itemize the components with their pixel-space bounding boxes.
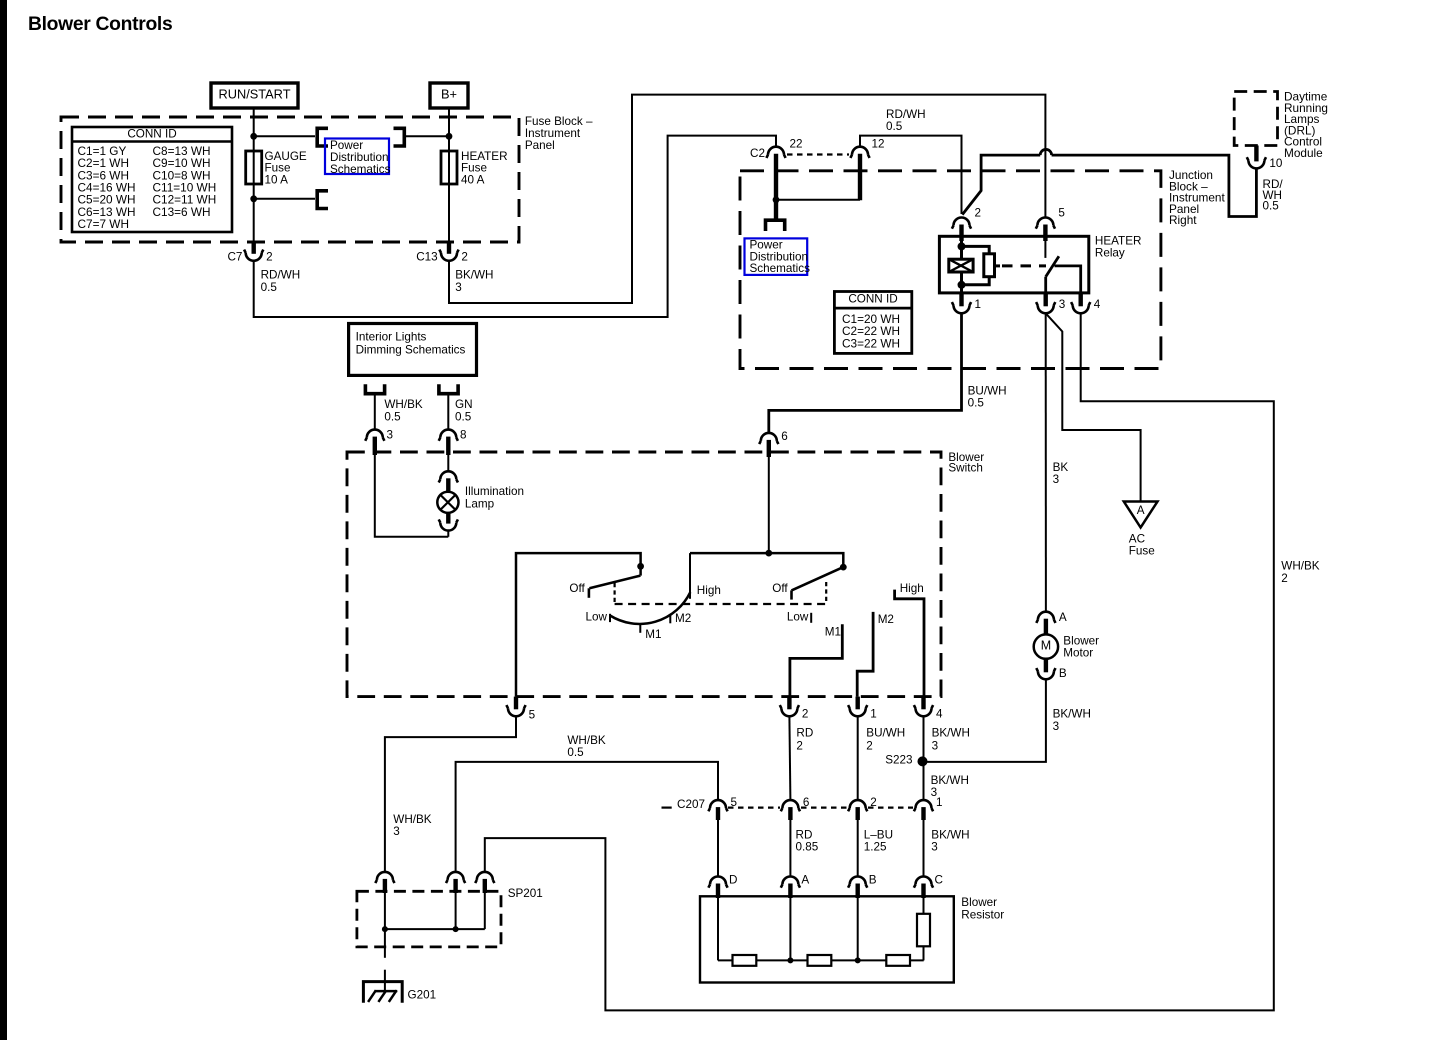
svg-text:0.5: 0.5	[1263, 200, 1280, 213]
svg-text:2: 2	[870, 796, 877, 809]
connector mating dashes C2	[787, 153, 849, 155]
resistor chain wire	[718, 959, 924, 961]
svg-text:Fuse: Fuse	[1129, 545, 1155, 558]
svg-text:3: 3	[1053, 720, 1060, 733]
relay coil junction dot bottom	[958, 281, 966, 289]
svg-text:Motor: Motor	[1063, 647, 1093, 660]
resistor internal wire B	[857, 898, 859, 960]
svg-text:2: 2	[461, 251, 468, 264]
blower resistor pin A connector	[781, 877, 800, 888]
wire C207-5 to resistor D	[717, 819, 719, 877]
svg-text:B+: B+	[441, 86, 457, 101]
svg-text:BK/WH: BK/WH	[931, 774, 969, 787]
relay switch to pin 3	[1044, 277, 1047, 293]
svg-text:A: A	[1059, 611, 1067, 624]
resistor internal wire C	[923, 898, 925, 914]
blower motor	[1034, 634, 1058, 658]
svg-text:SP201: SP201	[508, 887, 543, 900]
svg-text:Interior Lights: Interior Lights	[356, 331, 427, 344]
blower resistor pin C connector	[914, 877, 933, 888]
heater fuse HEATER Fuse 40 A	[441, 151, 457, 184]
connector C7 pin 2	[244, 250, 263, 261]
contact tick M2 (switch 1)	[669, 615, 671, 623]
relay coil junction dot top	[958, 242, 966, 250]
wire bracket to heater fuse wire	[404, 135, 449, 137]
svg-text:M2: M2	[675, 612, 691, 625]
SP201 junction dot middle	[453, 926, 459, 932]
svg-text:WH/BK: WH/BK	[384, 398, 423, 411]
wire hop over B+ feed	[1040, 149, 1051, 155]
svg-text:3: 3	[455, 281, 462, 294]
contact M1 wire (switch 2)	[790, 624, 842, 696]
svg-text:RD/WH: RD/WH	[261, 269, 301, 282]
svg-text:5: 5	[529, 708, 536, 721]
wire BK relay pin 3 to blower motor	[1045, 313, 1047, 611]
B+ box	[430, 83, 468, 108]
svg-text:WH/BK: WH/BK	[393, 813, 432, 826]
connector 6 into blower switch	[759, 433, 778, 444]
DRL pin 10 connector	[1247, 157, 1266, 168]
svg-text:C3=22 WH: C3=22 WH	[842, 336, 900, 350]
svg-text:Module: Module	[1284, 146, 1323, 160]
SP201 internal wire middle	[455, 893, 457, 929]
relay coil (crossed box)	[960, 241, 963, 259]
svg-text:C2: C2	[750, 147, 765, 160]
svg-text:B: B	[869, 873, 877, 886]
relay pin 4 connector	[1071, 302, 1090, 313]
svg-text:0.5: 0.5	[384, 410, 401, 423]
blower switch pin 8 connector	[439, 430, 458, 441]
svg-text:Low: Low	[586, 610, 608, 623]
blower switch pin 3 connector	[365, 430, 384, 441]
svg-text:AC: AC	[1129, 532, 1145, 545]
svg-text:2: 2	[1281, 572, 1288, 585]
svg-text:RD: RD	[796, 727, 813, 740]
illumination lamp	[437, 492, 458, 513]
junction dot B chain	[855, 957, 861, 963]
contact High wire (switch 1)	[689, 553, 691, 599]
blower switch pin 1 connector	[848, 705, 867, 716]
svg-text:Off: Off	[569, 582, 585, 595]
svg-text:RD: RD	[796, 828, 813, 841]
svg-text:Instrument: Instrument	[525, 127, 581, 140]
svg-text:3: 3	[393, 825, 400, 838]
junction dot heater top	[446, 133, 453, 140]
svg-text:Fuse Block –: Fuse Block –	[525, 115, 593, 128]
svg-text:0.5: 0.5	[886, 120, 903, 133]
wire L-BU 1.25 C207-2 to resistor B	[857, 819, 859, 877]
svg-text:Off: Off	[772, 582, 788, 595]
relay pin 5 connector	[1036, 218, 1055, 229]
CONN ID table (fuse block)	[72, 127, 232, 232]
svg-text:WH/BK: WH/BK	[1281, 560, 1320, 573]
SP201 internal wire left	[384, 893, 386, 947]
wire B+ down through heater fuse to C13	[448, 108, 450, 248]
wire stub down to power distribution bracket	[774, 200, 778, 219]
C207 cavity 2 connector	[848, 800, 867, 811]
svg-text:B: B	[1059, 667, 1067, 680]
svg-text:3: 3	[1053, 473, 1060, 486]
svg-text:12: 12	[872, 137, 885, 150]
SP201 internal wire right	[484, 893, 486, 929]
svg-text:C7=7 WH: C7=7 WH	[78, 217, 129, 231]
gauge fuse GAUGE Fuse 10 A	[246, 151, 262, 184]
contact High wire (switch 2)	[895, 590, 924, 697]
svg-text:BK/WH: BK/WH	[455, 269, 493, 282]
wire BK/WH pin 4 to S223	[923, 716, 925, 800]
svg-text:0.85: 0.85	[796, 841, 819, 854]
wire RD 0.85 C207-6 to resistor A	[789, 819, 791, 877]
resistor internal wire D	[717, 898, 719, 960]
relay coil parallel resistor	[962, 246, 990, 253]
svg-text:D: D	[729, 873, 737, 886]
svg-text:2: 2	[796, 739, 803, 752]
svg-text:10: 10	[1269, 157, 1283, 170]
splice S223	[918, 756, 928, 766]
svg-text:Illumination: Illumination	[465, 485, 524, 498]
svg-text:Panel: Panel	[525, 139, 555, 152]
svg-text:6: 6	[803, 796, 810, 809]
svg-text:HEATER: HEATER	[1095, 235, 1142, 248]
svg-text:Blower Controls: Blower Controls	[28, 14, 172, 35]
RUN/START box	[211, 83, 298, 108]
svg-text:CONN ID: CONN ID	[848, 293, 897, 306]
wire DRL pin 10 to relay pin 2 (RD/WH)	[1052, 155, 1257, 216]
wire WH/BK 0.5 from SP201 to C207-5	[456, 762, 718, 872]
blower motor pin A connector	[1036, 612, 1055, 623]
svg-text:2: 2	[975, 207, 982, 220]
svg-text:BK: BK	[1053, 461, 1069, 474]
svg-text:G201: G201	[408, 988, 437, 1001]
wire BU/WH relay pin 1 to blower switch pin 6	[769, 313, 962, 433]
wire pin 6 to switch feed	[768, 457, 770, 553]
bracket below interior lights (right)	[439, 384, 458, 394]
svg-text:6: 6	[781, 430, 788, 443]
wire joining 22 and 12 pins	[776, 199, 860, 201]
junction block - instrument panel right (dashed box)	[740, 171, 1161, 369]
interior lights dimming schematics box	[349, 324, 477, 376]
svg-text:3: 3	[1059, 298, 1066, 311]
resistor element 2	[808, 955, 832, 966]
relay pin 3 connector	[1036, 302, 1055, 313]
svg-text:0.5: 0.5	[567, 746, 584, 759]
svg-text:3: 3	[387, 429, 394, 442]
SP201 pin connector right	[475, 872, 494, 883]
svg-text:CONN ID: CONN ID	[127, 128, 176, 141]
blower switch (dashed box)	[347, 452, 941, 697]
blower resistor pin D connector	[708, 877, 727, 888]
svg-text:High: High	[900, 582, 924, 595]
svg-text:Blower: Blower	[961, 896, 997, 909]
SP201 pin connector middle	[446, 872, 465, 883]
switch 2 pivot dot	[840, 564, 847, 571]
bracket to power distribution schematics (junction block)	[766, 220, 785, 231]
switch 1 feed wire	[516, 553, 641, 697]
wire WH/BK 2 relay pin 4 to SP201	[485, 313, 1274, 1010]
svg-text:4: 4	[936, 708, 943, 721]
svg-text:0.5: 0.5	[261, 281, 278, 294]
junction dot below C2	[773, 196, 780, 203]
wire to power distribution bracket lower	[254, 198, 315, 200]
contact tick Low (switch 1)	[609, 614, 611, 622]
illumination lamp bottom terminal	[439, 519, 458, 530]
svg-text:0.5: 0.5	[968, 397, 985, 410]
blower resistor pin B connector	[848, 877, 867, 888]
illumination lamp top terminal	[439, 471, 458, 482]
svg-text:BU/WH: BU/WH	[968, 384, 1007, 397]
svg-text:GN: GN	[455, 398, 473, 411]
svg-text:3: 3	[931, 841, 938, 854]
relay pin 2 connector	[952, 218, 971, 229]
junction dot switch feed	[765, 550, 772, 557]
contact M2 wire (switch 2)	[857, 612, 873, 697]
svg-text:S223: S223	[885, 753, 912, 766]
relay actuator dashed link	[995, 264, 1001, 267]
blower motor pin B connector	[1036, 668, 1055, 679]
SP201 junction dot left	[382, 926, 388, 932]
connector C13 pin 2	[439, 250, 458, 261]
switch 1 rotary track arc	[610, 592, 690, 624]
blower resistor box	[700, 896, 954, 982]
page left border bar	[0, 0, 7, 1040]
wire 12 up to RD/WH feed	[860, 136, 962, 214]
blower switch pin 5 connector	[506, 705, 525, 716]
SP201 internal bus	[385, 928, 485, 930]
bracket to power distribution (upper left)	[317, 128, 328, 146]
svg-text:C13: C13	[416, 251, 437, 264]
svg-text:5: 5	[731, 796, 738, 809]
wire BK/WH from C13 to heater relay pin 5 feed	[449, 95, 1045, 303]
svg-text:BK/WH: BK/WH	[1053, 708, 1091, 721]
svg-text:Relay: Relay	[1095, 247, 1125, 260]
bracket from power distribution (upper right)	[394, 128, 405, 146]
switch 2 arm to Off	[792, 567, 844, 590]
svg-text:2: 2	[802, 708, 809, 721]
svg-text:C13=6 WH: C13=6 WH	[153, 205, 211, 219]
svg-text:BK/WH: BK/WH	[932, 727, 970, 740]
ground G201 symbol	[363, 982, 402, 1003]
wire RUN/START down through gauge fuse to C7	[253, 108, 255, 248]
svg-text:M2: M2	[878, 613, 894, 626]
resistor element 3	[886, 955, 910, 966]
svg-text:1.25: 1.25	[864, 841, 887, 854]
svg-text:RD/WH: RD/WH	[886, 108, 926, 121]
relay switch arm	[1046, 256, 1059, 277]
SP201 pin connector left	[375, 872, 394, 883]
svg-text:1: 1	[936, 796, 943, 809]
connector C2 cavity 12	[850, 147, 869, 158]
bracket to power distribution (lower)	[317, 191, 328, 209]
svg-text:Schematics: Schematics	[330, 163, 391, 176]
svg-text:4: 4	[1094, 298, 1101, 311]
C207 cavity 5 connector	[708, 800, 727, 811]
svg-text:22: 22	[790, 137, 803, 150]
junction dot A chain	[787, 957, 793, 963]
svg-text:Resistor: Resistor	[961, 908, 1004, 921]
svg-text:Schematics: Schematics	[750, 262, 811, 275]
resistor element 1	[733, 955, 757, 966]
junction dot gauge top	[250, 133, 257, 140]
heater relay box	[939, 236, 1088, 293]
svg-text:WH/BK: WH/BK	[567, 734, 606, 747]
svg-text:C7: C7	[227, 251, 242, 264]
wire WH/BK to blower switch pin 3	[374, 394, 376, 430]
svg-text:3: 3	[932, 739, 939, 752]
svg-text:C: C	[935, 873, 943, 886]
svg-text:0.5: 0.5	[455, 410, 472, 423]
svg-text:BK/WH: BK/WH	[931, 828, 969, 841]
wire SP201 to G201	[384, 947, 386, 958]
wire RD pin 2 to C207-6	[789, 716, 790, 800]
svg-text:A: A	[1137, 504, 1145, 517]
connector row C207 dashes	[662, 806, 672, 808]
svg-text:1: 1	[975, 298, 982, 311]
switch 1 pivot dot	[637, 563, 644, 570]
contact tick Low (switch 2)	[810, 613, 812, 623]
wire WH/BK 3 pin 5 to SP201	[385, 716, 516, 872]
bracket below interior lights (left)	[365, 384, 384, 394]
wire BK/WH 3 C207-1 to resistor C	[923, 819, 925, 877]
svg-text:M1: M1	[645, 628, 661, 641]
svg-text:2: 2	[866, 739, 873, 752]
svg-text:Lamp: Lamp	[465, 498, 495, 511]
wire GN to blower switch pin 8	[447, 394, 449, 430]
wire pin 3 to illumination lamp low side	[375, 454, 449, 537]
connector C2 cavity 22	[766, 147, 785, 158]
svg-text:BU/WH: BU/WH	[866, 727, 905, 740]
mechanical coupling dashed link	[613, 583, 615, 604]
fuse block - instrument panel (dashed box)	[61, 117, 519, 242]
C207 cavity 1 connector	[914, 800, 933, 811]
wire BK/WH 3 motor B to S223	[923, 679, 1046, 762]
relay switch common from pin 5	[1044, 241, 1046, 258]
svg-text:5: 5	[1058, 207, 1065, 220]
C207 cavity 6 connector	[781, 800, 800, 811]
wire BU/WH pin 1 to C207-2	[857, 716, 859, 800]
svg-text:1: 1	[870, 708, 877, 721]
AC fuse symbol (triangle A)	[1124, 502, 1158, 528]
blower switch pin 2 connector	[780, 705, 799, 716]
daytime running lamps DRL control module (dashed box)	[1234, 92, 1277, 146]
relay pin 1 connector	[952, 302, 971, 313]
svg-text:10 A: 10 A	[265, 173, 289, 186]
svg-text:M: M	[1041, 638, 1051, 652]
wire to power distribution bracket upper	[254, 135, 315, 137]
SP201 splice pack (dashed box)	[357, 891, 501, 947]
svg-text:High: High	[697, 584, 721, 597]
svg-text:Right: Right	[1169, 213, 1197, 227]
wire pin 8 to illumination lamp	[447, 454, 449, 472]
svg-text:Dimming Schematics: Dimming Schematics	[356, 343, 466, 356]
svg-text:8: 8	[460, 429, 467, 442]
resistor internal wire A	[789, 898, 791, 960]
junction dot gauge bottom	[250, 195, 257, 202]
power distribution schematics box (junction block)	[745, 238, 808, 275]
switch 1 arm to Off	[589, 576, 640, 589]
svg-text:A: A	[801, 873, 809, 886]
svg-text:40 A: 40 A	[461, 173, 485, 186]
svg-text:M1: M1	[825, 626, 841, 639]
power distribution schematics box (fuse block)	[325, 139, 389, 175]
CONN ID table (junction block)	[834, 292, 911, 354]
contact tick M1 (switch 1)	[639, 624, 641, 633]
svg-text:L–BU: L–BU	[864, 828, 893, 841]
resistor element 4 (vertical)	[917, 914, 930, 947]
svg-text:Switch: Switch	[948, 462, 982, 475]
switch 2 feed wire	[690, 553, 843, 567]
svg-text:Low: Low	[787, 610, 809, 623]
svg-text:C207: C207	[677, 798, 705, 811]
blower switch pin 4 connector	[914, 705, 933, 716]
wire relay pin 3 branch to AC fuse	[1046, 313, 1141, 501]
svg-text:RUN/START: RUN/START	[218, 86, 290, 101]
relay switch contact to pin 4	[1055, 266, 1081, 293]
wire RD/WH from C7 to connector C2	[254, 136, 776, 317]
svg-text:2: 2	[266, 251, 273, 264]
